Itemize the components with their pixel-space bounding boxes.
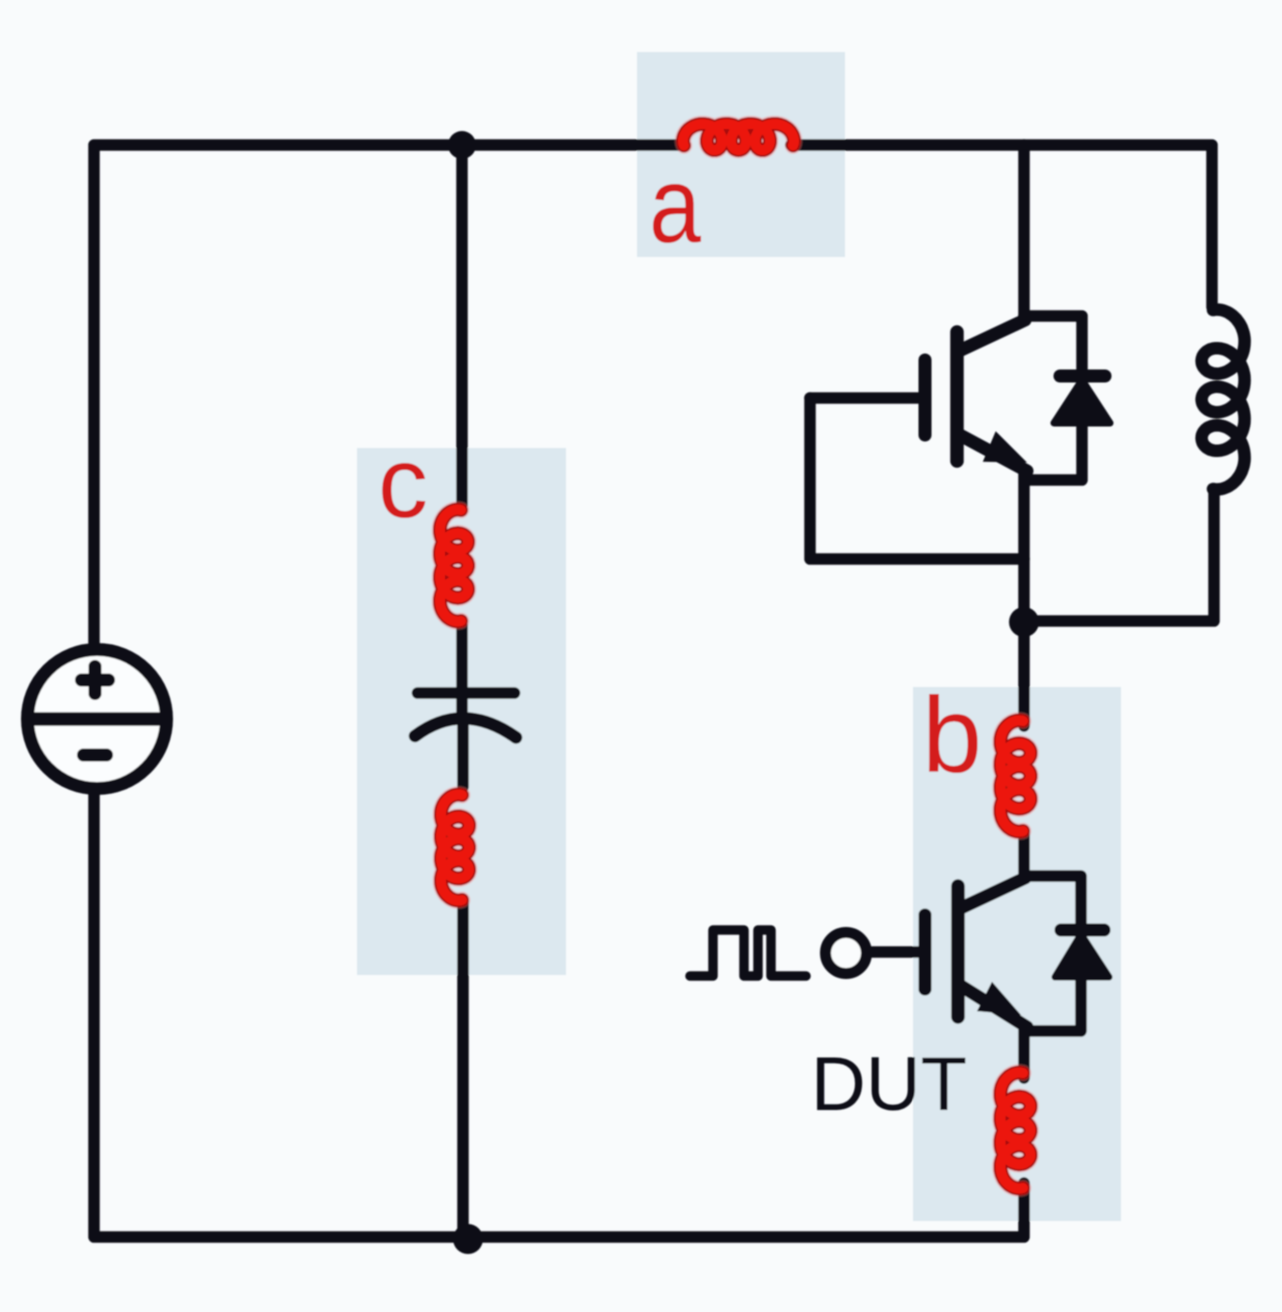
svg-text:c: c [378, 427, 428, 539]
wire: center branch top segment [456, 145, 468, 505]
parasitic inductor b (red coil) [1001, 721, 1031, 832]
IGBT T2 collector diagonal [959, 878, 1025, 909]
wire: left side bottom + bottom + DUT bottom corner [94, 793, 1024, 1237]
diode D1 triangle [1054, 380, 1110, 423]
voltage source V1 plus sign [82, 667, 109, 694]
wire: T1 emitter down to node [1018, 470, 1030, 622]
parasitic inductor c upper (red coil) [440, 510, 468, 622]
capacitor C1 curved plate [415, 718, 516, 737]
wire: top-left + left side top [94, 145, 679, 643]
voltage source V1 circle [28, 650, 167, 789]
wire: T1 diode bottom lead [1026, 424, 1082, 480]
capacitor C1 top plate [418, 687, 515, 699]
pulse source waveform glyph [690, 930, 806, 976]
wire: T2 diode top lead [1024, 876, 1081, 934]
wire: top right + right corner down to load coil [791, 145, 1212, 307]
pulse source terminal circle [826, 933, 867, 974]
wire: load coil bottom to node horizontal [1024, 492, 1214, 621]
voltage source V1 divider line [28, 712, 166, 726]
node dot: bottom junction [453, 1224, 483, 1254]
load inductor L (black coil) [1202, 310, 1245, 490]
wire: coil c2 to bottom [457, 901, 469, 1239]
IGBT T1 body bar [950, 332, 964, 461]
IGBT T1 collector diagonal [959, 320, 1025, 351]
wire: T1 collector branch from top wire [1018, 145, 1030, 318]
IGBT T2 gate bar [919, 915, 932, 989]
voltage source V1 minus sign [84, 749, 107, 762]
IGBT T2 emitter diagonal [958, 984, 1027, 1027]
wire: T2 diode bottom lead [1026, 980, 1081, 1031]
wire: T2 emitter to bottom coil [1018, 1028, 1030, 1078]
IGBT T1 gate bar [919, 360, 932, 435]
parasitic inductor DUT emitter (red coil) [1001, 1073, 1031, 1189]
svg-text:a: a [649, 144, 702, 265]
T1 emitter arrow [983, 431, 1027, 462]
highlight box b / DUT [913, 687, 1121, 1221]
highlight box c [357, 448, 566, 975]
wire: coil b to T2 collector [1018, 832, 1030, 876]
IGBT T2 (DUT) body bar [951, 886, 965, 1017]
wire: T1 gate lead [810, 392, 920, 404]
wire: coil c1 to capacitor [456, 625, 468, 712]
wire: T1 diode top lead [1024, 316, 1082, 380]
wire: capacitor to coil c2 [457, 720, 469, 787]
svg-text:DUT: DUT [811, 1042, 967, 1127]
wire: node down to coil b [1018, 622, 1030, 726]
highlight box a [637, 52, 845, 257]
node dot: half-bridge midpoint [1009, 607, 1039, 637]
node dot: top junction [448, 131, 476, 159]
diode D1 cathode bar [1060, 370, 1105, 383]
wire: T2 gate lead [872, 946, 920, 958]
IGBT T1 emitter diagonal [958, 434, 1027, 471]
svg-text:b: b [922, 674, 982, 795]
T2 emitter arrow [977, 982, 1021, 1015]
parasitic inductor c lower (red coil) [441, 795, 469, 901]
wire: T1 gate-emitter loop [810, 398, 1024, 559]
diode D2 triangle [1055, 934, 1109, 977]
parasitic inductor a (red coil, top) [683, 124, 794, 150]
diode D2 cathode bar [1061, 924, 1104, 937]
